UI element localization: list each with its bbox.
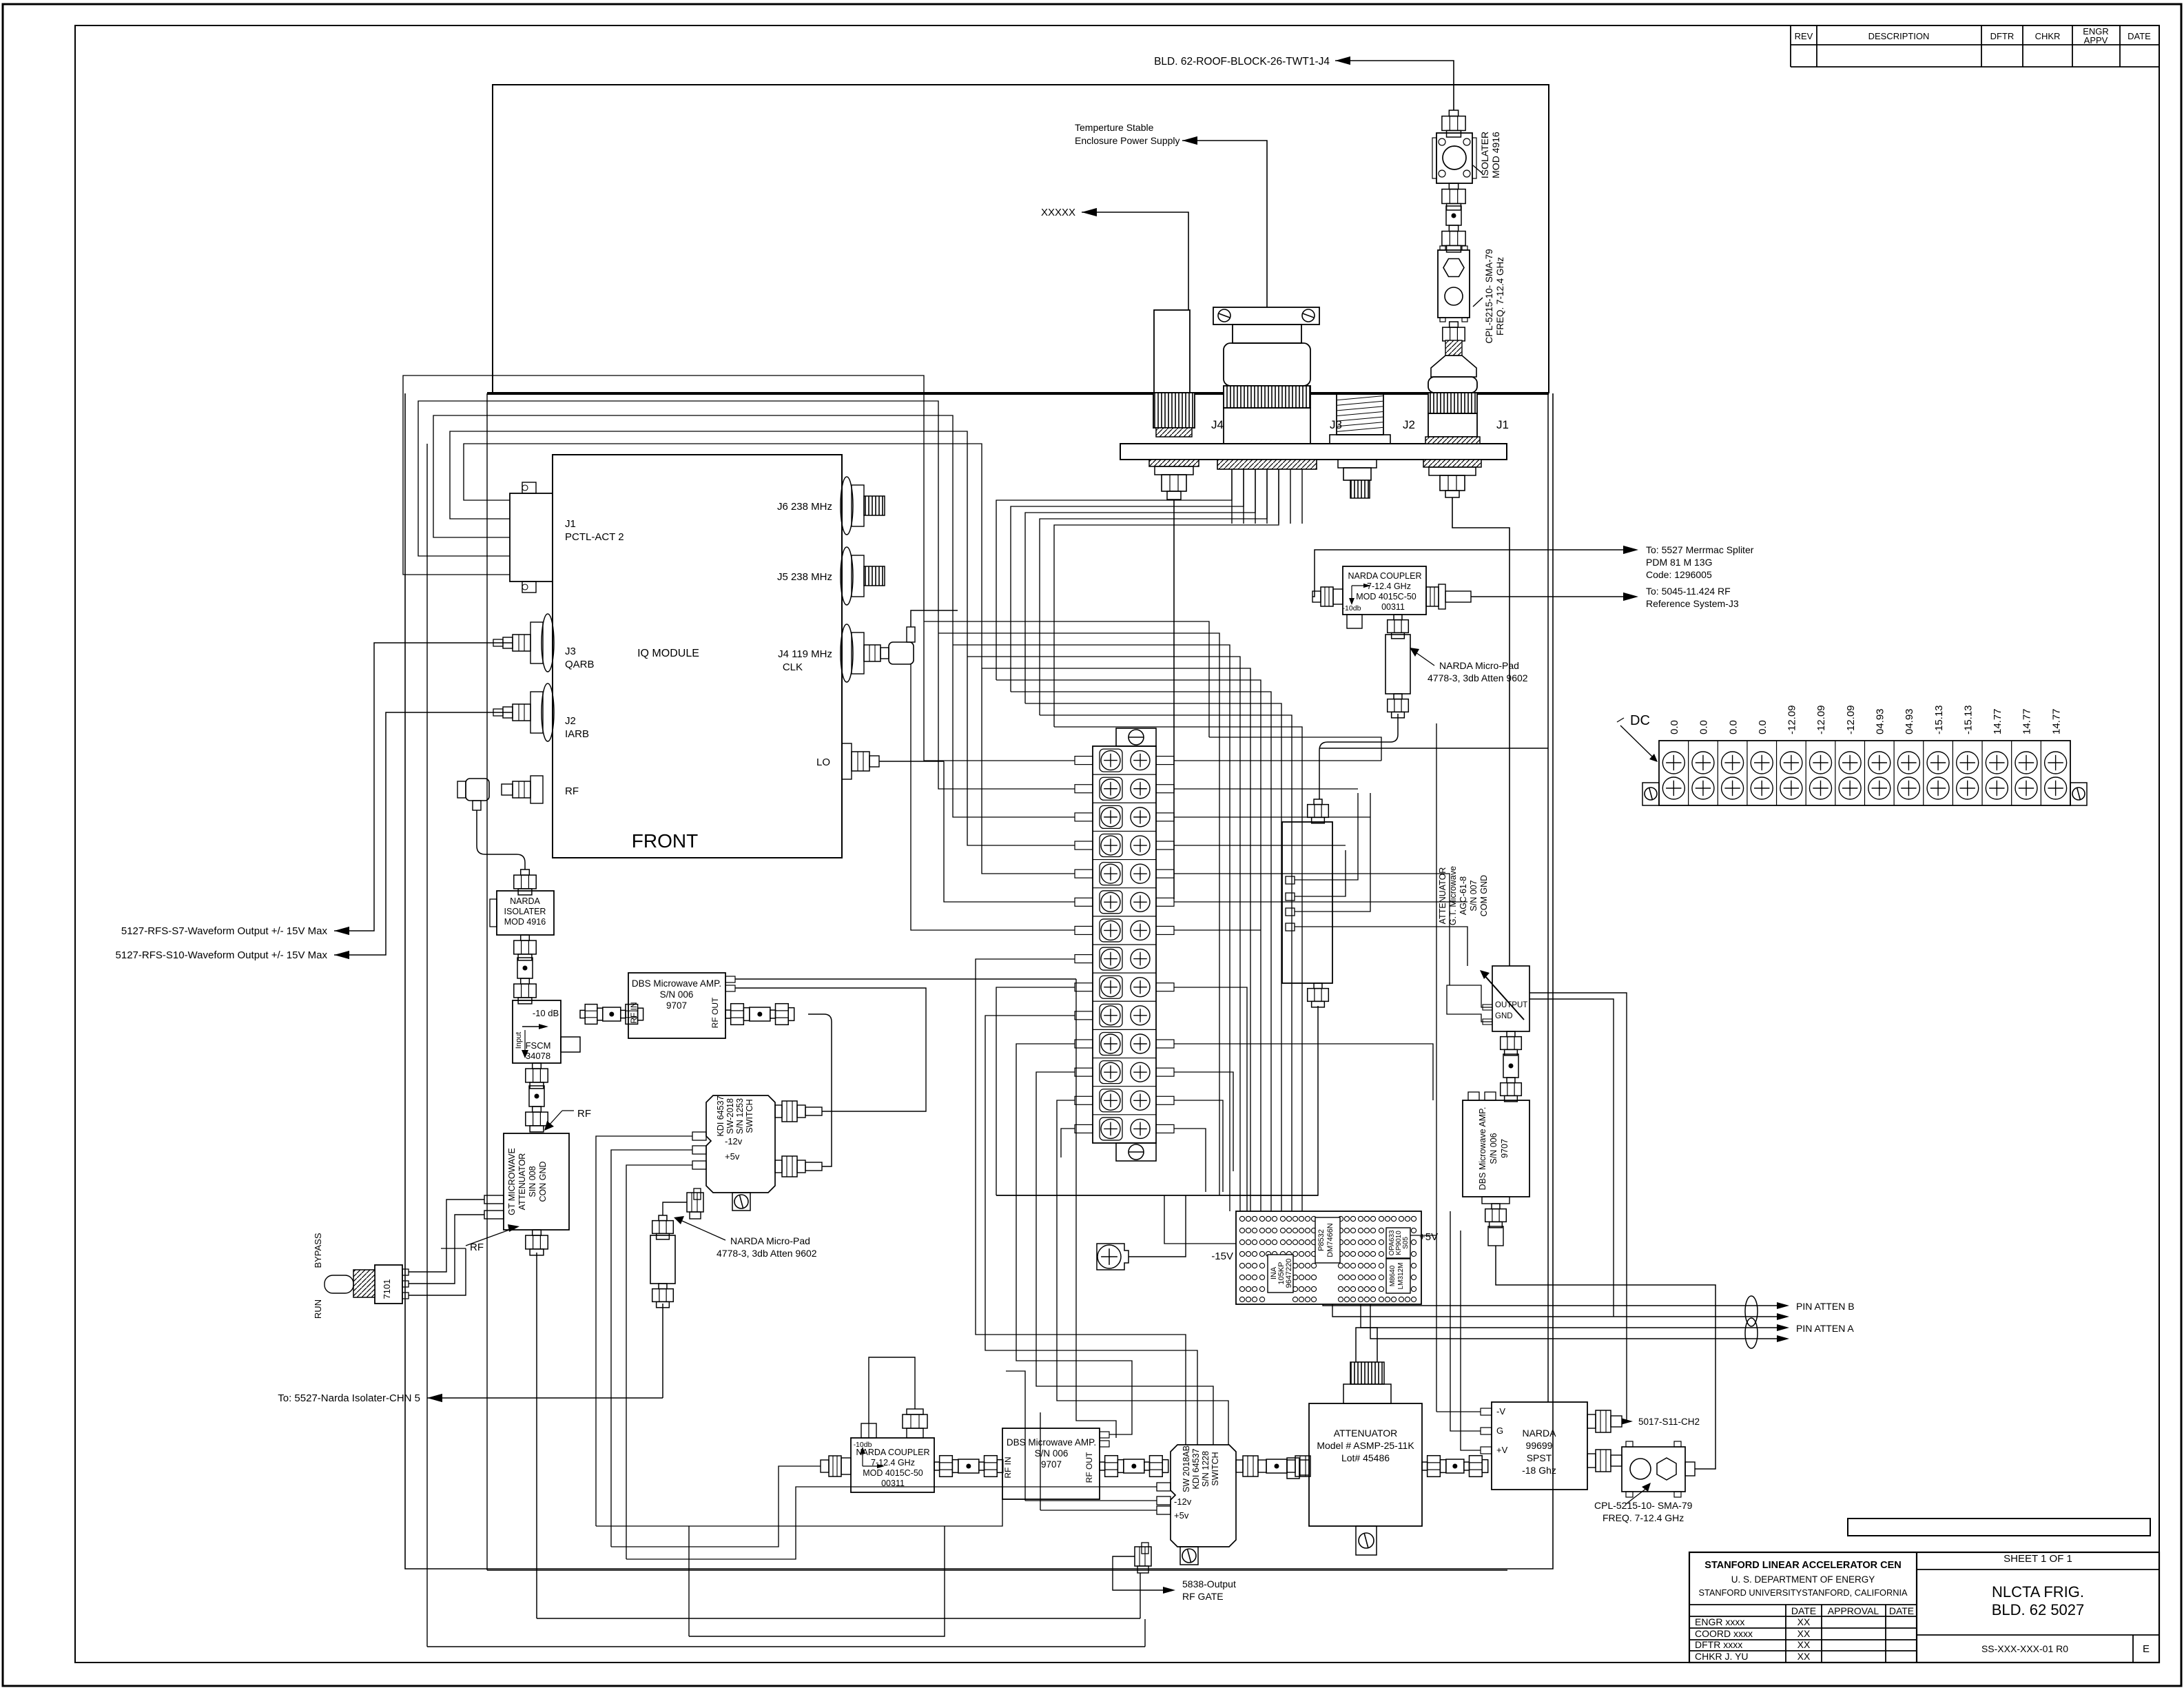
svg-text:04.93: 04.93 (1874, 708, 1886, 734)
IQ module J5 port (841, 547, 853, 605)
terminal lug (spare) (1097, 1244, 1129, 1270)
svg-text:BYPASS: BYPASS (313, 1233, 323, 1268)
terminal strip row 2 (1093, 774, 1156, 775)
svg-text:J2: J2 (1403, 418, 1415, 431)
coupler bottom tab (1347, 615, 1362, 628)
terminal strip row 13 (1093, 1086, 1156, 1087)
svg-text:G: G (1496, 1425, 1503, 1436)
DC block right tab (2070, 783, 2087, 805)
wire bus run 9 (1040, 715, 1292, 1211)
svg-text:XX: XX (1797, 1639, 1811, 1650)
svg-text:NARDA COUPLER: NARDA COUPLER (856, 1448, 930, 1457)
svg-text:Model # ASMP-25-11K: Model # ASMP-25-11K (1317, 1440, 1414, 1451)
DC terminal block body (1659, 741, 2070, 805)
FSCM 34078 box (513, 1000, 561, 1063)
svg-text:SWITCH: SWITCH (1211, 1452, 1220, 1485)
svg-text:REV: REV (1795, 31, 1813, 41)
DC terminal column 11 (-15.13) (1952, 741, 1953, 805)
wire D-sub pin 4 loop (418, 401, 938, 633)
wire middle DBS tabs (1076, 979, 1116, 1438)
DBS Microwave AMP S/N 006 9707 (middle) (628, 973, 725, 1038)
J3 strap plate (1213, 307, 1319, 325)
svg-text:S/N 007: S/N 007 (1469, 880, 1479, 911)
wire bus run 1 (924, 621, 1209, 737)
svg-text:GT MICROWAVE: GT MICROWAVE (507, 1148, 517, 1215)
terminal strip top tab (1116, 728, 1156, 746)
svg-text:4778-3, 3db Atten 9602: 4778-3, 3db Atten 9602 (1428, 672, 1528, 683)
OUTPUT GND box (1492, 966, 1529, 1031)
wire bus run 4 (967, 657, 1240, 1211)
wire bus run 6 (996, 680, 1261, 1211)
ASMP right SMA chain (1422, 1462, 1428, 1470)
wire from panel J3 ribbon 2 (1011, 469, 1244, 692)
terminal strip row 7 (1093, 916, 1156, 917)
OUTPUT GND right wires (1529, 993, 1627, 1421)
narda micro-pad #2 (1385, 635, 1410, 694)
svg-text:DBS Microwave AMP.: DBS Microwave AMP. (632, 978, 721, 989)
svg-text:Enclosure Power Supply: Enclosure Power Supply (1075, 135, 1180, 146)
DC terminal column 8 (04.93) (1864, 741, 1865, 805)
svg-text:COM GND: COM GND (1479, 875, 1489, 916)
wire bus run 8 (1025, 703, 1281, 1211)
IQ module RF port (530, 776, 543, 803)
terminal strip row 5 (1093, 859, 1156, 861)
wire from panel J3 ribbon 5 (1054, 469, 1279, 727)
svg-text:J1: J1 (565, 518, 576, 530)
svg-text:S/N 006: S/N 006 (1035, 1448, 1069, 1459)
main enclosure outline (405, 393, 1553, 1569)
wire SPST control feeds (1436, 1411, 1481, 1412)
svg-text:FREQ. 7-12.4 GHz: FREQ. 7-12.4 GHz (1603, 1512, 1684, 1523)
SMA below micro-pad2 (1394, 694, 1402, 699)
svg-text:GND: GND (1495, 1012, 1513, 1020)
KDI1 left control tabs (692, 1132, 706, 1140)
OUTPUT GND small tabs (1483, 1005, 1492, 1010)
DC terminal column 7 (-12.09) (1835, 741, 1836, 805)
DC terminal column 4 (0.0) (1747, 741, 1748, 805)
narda micro-pad barrel (650, 1235, 675, 1284)
title block (1689, 1552, 2159, 1663)
wire coupler right to 5045 reference (1471, 596, 1630, 597)
terminal strip row 4 (1093, 830, 1156, 832)
svg-text:MOD 4015C-50: MOD 4015C-50 (863, 1468, 923, 1478)
SPST left pin tabs (1481, 1408, 1492, 1415)
IQ module J2 IARB port (542, 683, 554, 741)
KDI1 wires going down to bottom chain (596, 1499, 1002, 1526)
svg-text:14.77: 14.77 (2021, 708, 2033, 734)
connector J4 body (1154, 310, 1190, 393)
svg-text:XX: XX (1797, 1616, 1811, 1627)
wire below micro-pad down to CHN5 line (662, 1304, 663, 1398)
attenuator control tabs (1286, 876, 1295, 884)
svg-text:SIN 008: SIN 008 (528, 1166, 537, 1197)
wire from panel J3 ribbon 3 (1025, 469, 1255, 703)
svg-text:STANFORD LINEAR ACCELERATOR CE: STANFORD LINEAR ACCELERATOR CEN (1704, 1560, 1901, 1571)
svg-text:-V: -V (1496, 1406, 1505, 1417)
svg-text:LO: LO (816, 756, 830, 768)
SMA below narda isolator (521, 935, 530, 940)
svg-text:Temperture Stable: Temperture Stable (1075, 122, 1154, 133)
attenuator AGC-61-8 body (1282, 822, 1332, 983)
PIN ATTEN ellipses (1745, 1296, 1758, 1326)
DC terminal column 14 (14.77) (2040, 741, 2041, 805)
svg-text:-15.13: -15.13 (1933, 705, 1945, 734)
svg-text:CHKR: CHKR (2035, 31, 2061, 41)
svg-text:RF GATE: RF GATE (1182, 1591, 1224, 1602)
connector J3 upper body (1224, 343, 1310, 386)
svg-text:DFTR: DFTR (1990, 31, 2015, 41)
svg-text:COORD xxxx: COORD xxxx (1695, 1628, 1753, 1639)
SMA (1507, 1078, 1515, 1083)
svg-text:ATTENUATOR: ATTENUATOR (1438, 867, 1448, 925)
connector J1 body (1428, 413, 1477, 437)
svg-text:KDI 64537: KDI 64537 (716, 1095, 725, 1136)
svg-text:+5v: +5v (725, 1151, 740, 1162)
terminal strip row 12 (1093, 1058, 1156, 1059)
svg-text:DC: DC (1630, 713, 1650, 728)
bottom DBS amp box (1002, 1428, 1100, 1499)
svg-text:AGC-61-8: AGC-61-8 (1459, 876, 1468, 915)
barrel (517, 958, 533, 978)
bottom coupler right chain to DBS (934, 1462, 940, 1470)
connector J4 hatched collar (1156, 428, 1192, 437)
svg-text:DFTR xxxx: DFTR xxxx (1695, 1639, 1742, 1650)
IQ module box (553, 455, 842, 858)
arrow right inside FSCM (522, 1026, 544, 1027)
SMA (725, 1010, 731, 1018)
terminal strip bottom tab (1116, 1143, 1156, 1161)
svg-text:S/N 006: S/N 006 (1489, 1133, 1498, 1164)
connector J4 nut (1162, 475, 1186, 491)
svg-text:DBS Microwave AMP.: DBS Microwave AMP. (1007, 1437, 1096, 1448)
wires KDI2 control feeds (1006, 1486, 1157, 1488)
connector J1 hatched ring (1425, 437, 1480, 444)
svg-text:NARDA Micro-Pad: NARDA Micro-Pad (730, 1235, 810, 1246)
connector J2 base (1330, 435, 1390, 444)
svg-text:J4 119 MHz: J4 119 MHz (778, 648, 832, 660)
svg-text:To: 5045-11.424 RF: To: 5045-11.424 RF (1646, 586, 1731, 597)
IQ module J1 D-sub connector (510, 493, 553, 581)
svg-text:PIN ATTEN A: PIN ATTEN A (1796, 1323, 1854, 1334)
IQ module J4 CLK port (841, 624, 853, 682)
board IC OPA633 KP9010 S05 (1386, 1228, 1410, 1258)
svg-text:S/N 1253: S/N 1253 (735, 1098, 745, 1134)
svg-text:Input: Input (515, 1032, 523, 1049)
switch 7101 threaded bushing (353, 1270, 375, 1297)
svg-text:To: 5527 Merrmac Spliter: To: 5527 Merrmac Spliter (1646, 544, 1754, 555)
svg-text:FSCM: FSCM (526, 1040, 551, 1051)
wires from DBS amp tabs (735, 978, 1076, 980)
svg-text:0.0: 0.0 (1727, 720, 1739, 734)
wire below GT attenuator (536, 1253, 537, 1618)
SMA stack (1449, 225, 1458, 231)
svg-text:-10 dB: -10 dB (533, 1008, 559, 1018)
wire from panel J3 ribbon 1 (996, 469, 1232, 680)
KDI1 upper port wire (822, 988, 926, 1111)
svg-text:IQ MODULE: IQ MODULE (637, 648, 699, 659)
svg-text:SPST: SPST (1527, 1452, 1552, 1463)
switch 7101 body (375, 1265, 402, 1304)
connector J2 threaded stub (1350, 480, 1370, 498)
svg-text:4778-3, 3db Atten 9602: 4778-3, 3db Atten 9602 (717, 1248, 817, 1259)
strip left wires rows 8-14 going down (976, 959, 1186, 1445)
svg-text:7-12.4 GHz: 7-12.4 GHz (1367, 581, 1411, 591)
DBS right amp top tabs (1468, 1092, 1479, 1100)
strip right wires (1174, 760, 1381, 761)
narda isolator MOD 4916 box (497, 891, 554, 935)
barrel (1503, 1054, 1518, 1078)
ASMP left SMA (1299, 1460, 1309, 1475)
wire bus run 5 (982, 668, 1250, 1211)
svg-text:Code: 1296005: Code: 1296005 (1646, 569, 1712, 580)
connector mounting plate (1120, 444, 1507, 460)
perforated prototype board (1236, 1211, 1421, 1304)
svg-text:BLD. 62-ROOF-BLOCK-26-TWT1-J4: BLD. 62-ROOF-BLOCK-26-TWT1-J4 (1154, 56, 1330, 68)
wire RF OUT to KDI switch (rounded corner) (808, 1014, 832, 1166)
connector J3 ribbed band (1224, 386, 1310, 408)
wire bottom return 2375 (689, 1526, 945, 1636)
board IC M8640 LM312M (1386, 1259, 1410, 1293)
enclosure panel thick line (487, 392, 1549, 395)
connector J4 ribbed band (1153, 393, 1195, 428)
FSCM right SMA chain to DBS amp (580, 1010, 585, 1018)
wires to KDI1 left tabs (596, 1136, 692, 1526)
SMA above right attenuator (1314, 799, 1322, 805)
wires from 7101 to GT attenuator tabs (409, 1200, 484, 1272)
svg-text:MOD 4015C-50: MOD 4015C-50 (1356, 592, 1416, 601)
SMA above micro-pad (659, 1215, 667, 1221)
wire bus run 10 (1054, 727, 1302, 1211)
svg-text:RF: RF (577, 1108, 591, 1120)
svg-text:RUN: RUN (313, 1299, 323, 1319)
svg-text:XX: XX (1797, 1651, 1811, 1662)
svg-text:KDI 64537: KDI 64537 (1191, 1448, 1201, 1489)
svg-text:5127-RFS-S7-Waveform Output +/: 5127-RFS-S7-Waveform Output +/- 15V Max (121, 925, 328, 937)
svg-text:-12.09: -12.09 (1815, 705, 1827, 734)
DC terminal column 9 (04.93) (1893, 741, 1895, 805)
terminal strip row 10 (1093, 1000, 1156, 1002)
svg-text:RF IN: RF IN (629, 1002, 639, 1023)
CPL right tab (1685, 1462, 1695, 1476)
svg-text:M8640: M8640 (1389, 1265, 1397, 1286)
KDI2 right SMA to attenuator ASMP (1236, 1460, 1243, 1472)
KDI1 bottom screw tab (732, 1193, 750, 1211)
KDI1 right upper SMA (775, 1105, 782, 1118)
svg-text:9707: 9707 (666, 1000, 687, 1011)
DC terminal column 5 (-12.09) (1776, 741, 1778, 805)
svg-text:U. S. DEPARTMENT OF ENERGY: U. S. DEPARTMENT OF ENERGY (1731, 1574, 1875, 1585)
svg-text:CPL-5215-10- SMA-79: CPL-5215-10- SMA-79 (1594, 1500, 1693, 1511)
svg-text:FRONT: FRONT (632, 830, 698, 852)
wire bottom return 2390 (427, 1646, 1145, 1647)
wire KDI2 bottom elbow (1113, 1556, 1167, 1590)
switch 7101 terminals (402, 1269, 409, 1275)
svg-text:DESCRIPTION: DESCRIPTION (1868, 31, 1930, 41)
connector J3 skirt below plate (1217, 460, 1317, 469)
svg-text:XX: XX (1797, 1628, 1811, 1639)
svg-text:S/N 1228: S/N 1228 (1201, 1451, 1211, 1487)
svg-text:NARDA: NARDA (510, 896, 540, 906)
svg-text:ISOLATER: ISOLATER (504, 907, 546, 916)
wire D-sub pin 3 loop (433, 415, 953, 645)
terminal strip body (1093, 746, 1156, 1143)
bottom coupler top SMA (907, 1428, 923, 1438)
SMA above narda isolator (521, 869, 530, 875)
svg-text:APPV: APPV (2084, 35, 2108, 45)
svg-text:-12v: -12v (725, 1136, 743, 1146)
long wire y1735 (996, 1195, 1318, 1196)
KDI2 bottom screw tab (1180, 1547, 1198, 1565)
terminal strip row 8 (1093, 944, 1156, 945)
attenuator ASMP-25-11K body (1309, 1403, 1422, 1526)
wire bundle run 1 tail (1209, 737, 1381, 761)
svg-text:MOD 4916: MOD 4916 (504, 917, 546, 927)
svg-text:DM7466N: DM7466N (1326, 1223, 1335, 1257)
svg-text:SWITCH: SWITCH (745, 1099, 754, 1133)
svg-text:9647220: 9647220 (1285, 1259, 1293, 1288)
DBS amp top-right power tabs (725, 976, 735, 982)
FSCM side tab (561, 1037, 580, 1052)
DC block left tab (1642, 783, 1659, 805)
svg-text:-12v: -12v (1174, 1496, 1192, 1507)
coupler tab wire (868, 1423, 869, 1438)
svg-text:DATE: DATE (1889, 1605, 1914, 1616)
wire RF elbow down to narda isolator (477, 810, 525, 869)
svg-text:-15V: -15V (1211, 1250, 1233, 1262)
svg-text:XXXXX: XXXXX (1041, 207, 1075, 218)
attenuator tab wires (1295, 793, 1358, 880)
svg-text:5838-Output: 5838-Output (1182, 1578, 1236, 1589)
wire D-sub pin 1 loop (464, 444, 982, 668)
connector J2 nut below plate (1338, 460, 1377, 468)
svg-text:J2: J2 (565, 715, 576, 727)
isolator top SMA (1449, 110, 1458, 116)
SMA (533, 1107, 542, 1112)
terminal strip row 3 (1093, 802, 1156, 803)
terminal strip row 6 (1093, 887, 1156, 889)
DC terminal column 1 (0.0) (1662, 752, 1685, 774)
connector J3 lower body (1224, 408, 1310, 444)
svg-text:+5v: +5v (1174, 1510, 1189, 1521)
OUTPUT GND left loop wire (1447, 985, 1492, 1022)
wires into terminal strip left, rows 1-7 (924, 621, 1075, 761)
KDI2 bottom SMA (1142, 1543, 1148, 1554)
svg-text:DATE: DATE (1791, 1605, 1816, 1616)
SMA below right attenuator (1314, 983, 1322, 989)
svg-text:BLD. 62 5027: BLD. 62 5027 (1992, 1601, 2085, 1618)
CPL coupler block (bottom right) (1622, 1447, 1685, 1492)
connector J1 dome (1428, 377, 1477, 393)
svg-text:Reference System-J3: Reference System-J3 (1646, 598, 1739, 609)
terminal strip row 11 (1093, 1029, 1156, 1030)
wire J4 down (1173, 500, 1175, 899)
svg-text:APPROVAL: APPROVAL (1828, 1605, 1879, 1616)
bottom coupler left SMA (841, 1458, 851, 1474)
svg-text:CPL-5215-10- SMA-79: CPL-5215-10- SMA-79 (1484, 249, 1494, 343)
svg-text:PIN ATTEN B: PIN ATTEN B (1796, 1301, 1855, 1312)
wire D-sub pin 5 loop (403, 375, 924, 621)
svg-text:RF OUT: RF OUT (1084, 1452, 1094, 1483)
svg-text:SHEET 1 OF 1: SHEET 1 OF 1 (2003, 1553, 2072, 1565)
DC terminal column 13 (14.77) (2011, 741, 2012, 805)
revision table (1790, 25, 1791, 67)
svg-text:J6 238 MHz: J6 238 MHz (777, 501, 832, 513)
board holes (1239, 1216, 1244, 1221)
right bus vertical 2247 (1547, 393, 1549, 1402)
OUTPUT GND adjust arrow (1484, 975, 1524, 1020)
attenuator top horizontal (1319, 748, 1548, 749)
svg-text:S05: S05 (1402, 1237, 1410, 1249)
svg-text:-12.09: -12.09 (1845, 705, 1857, 734)
coupler bottom SMA (1394, 615, 1402, 620)
ASMP top shaft (1356, 1328, 1377, 1362)
KDI2 left tabs (1157, 1483, 1171, 1491)
svg-text:+5V: +5V (1419, 1231, 1438, 1243)
svg-text:J5 238 MHz: J5 238 MHz (777, 571, 832, 583)
svg-text:14.77: 14.77 (1992, 708, 2003, 734)
svg-text:Lot# 45486: Lot# 45486 (1341, 1452, 1390, 1463)
SMA below FSCM (533, 1063, 542, 1069)
J3 ribbon wires (1231, 469, 1233, 524)
terminal strip row 9 (1093, 972, 1156, 974)
GT attenuator left tabs (484, 1195, 504, 1204)
KDI1 bottom SMA with elbow (694, 1188, 701, 1200)
svg-text:9707: 9707 (1500, 1139, 1510, 1158)
GT MICROWAVE ATTENUATOR box (504, 1133, 569, 1230)
svg-text:9707: 9707 (1041, 1459, 1062, 1470)
bottom narda coupler box (851, 1438, 934, 1492)
SPST right bottom SMA (1587, 1454, 1596, 1468)
KDI switch 2 body (1171, 1445, 1236, 1547)
connector J2 coiled body (1337, 393, 1383, 435)
svg-text:-15.13: -15.13 (1962, 705, 1974, 734)
bottom coupler top SMA wire up (869, 1357, 915, 1423)
twisted taper (1445, 340, 1462, 356)
connector J1 ribbed band (1428, 393, 1477, 413)
DC terminal column 10 (-15.13) (1923, 741, 1924, 805)
svg-text:DBS Microwave AMP.: DBS Microwave AMP. (1478, 1107, 1487, 1191)
svg-text:ENGR xxxx: ENGR xxxx (1695, 1616, 1744, 1627)
svg-text:+V: +V (1496, 1445, 1508, 1455)
ASMP bottom screw tab (1356, 1526, 1377, 1555)
wire attenuator bottom down-left (996, 1006, 1318, 1195)
wire coupler left up to 5527 merrmac (1312, 550, 1630, 597)
svg-text:IARB: IARB (565, 728, 589, 740)
callout 5017-S11-CH2 (1622, 1421, 1625, 1422)
svg-text:7101: 7101 (382, 1279, 392, 1299)
wire D-sub pin 2 loop (450, 431, 967, 657)
svg-text:SS-XXX-XXX-01 R0: SS-XXX-XXX-01 R0 (1981, 1643, 2068, 1654)
svg-text:MOD 4916: MOD 4916 (1490, 132, 1501, 178)
svg-text:99699: 99699 (1526, 1440, 1553, 1451)
svg-text:QARB: QARB (565, 659, 595, 670)
barrel adapter (1446, 206, 1461, 225)
svg-text:-10db: -10db (1343, 604, 1361, 613)
SMA below right DBS amp (1482, 1197, 1510, 1204)
svg-text:04.93: 04.93 (1904, 708, 1915, 734)
SMA below micro-pad (659, 1284, 667, 1289)
svg-text:0.0: 0.0 (1757, 720, 1769, 734)
isolator callout arrow (1473, 165, 1483, 174)
terminal strip row 1 (1100, 749, 1122, 772)
SMA below GT attenuator (533, 1230, 542, 1235)
DC terminal column 2 (0.0) (1688, 741, 1689, 805)
svg-text:P8532: P8532 (1317, 1229, 1326, 1251)
title block spare bar (1848, 1519, 2150, 1536)
svg-text:34078: 34078 (526, 1051, 550, 1061)
svg-text:NARDA Micro-Pad: NARDA Micro-Pad (1439, 660, 1519, 671)
SMA below OUTPUT GND (1507, 1031, 1515, 1037)
